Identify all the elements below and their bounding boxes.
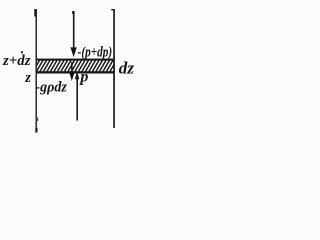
- svg-text:-(p+dp): -(p+dp): [78, 45, 113, 61]
- svg-text:dz: dz: [119, 59, 135, 78]
- hatched slab: interior hatch: [28, 58, 125, 74]
- arrow -(p+dp) head: [71, 47, 77, 57]
- arrow -gpdz head: [69, 73, 74, 82]
- right column wall line: [111, 9, 115, 128]
- hatched slab: top edge: [36, 59, 114, 61]
- hatched slab: bottom edge: [36, 71, 114, 73]
- arrow p head: [75, 71, 79, 79]
- svg-text:p: p: [78, 68, 88, 85]
- svg-text:z: z: [24, 70, 31, 86]
- arrow p shaft: [76, 78, 78, 121]
- dot above d of z+dz: [21, 51, 23, 53]
- svg-text:z+dz: z+dz: [2, 53, 31, 69]
- arrow -(p+dp) shaft: [73, 12, 75, 48]
- svg-text:-gρdz: -gρdz: [35, 79, 67, 95]
- arrow -gpdz shaft: [71, 62, 73, 74]
- left column wall line: [34, 9, 38, 133]
